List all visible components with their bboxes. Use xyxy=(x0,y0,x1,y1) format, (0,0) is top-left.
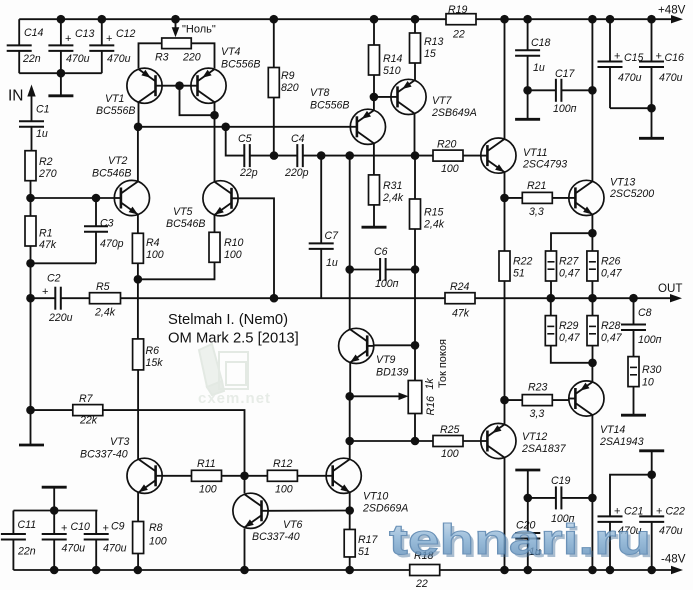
wire: VT2 base line xyxy=(31,194,114,203)
wire: C19 line right xyxy=(561,497,592,499)
watermark cxem.net logo xyxy=(198,344,271,407)
wire: VT2 collector up xyxy=(137,127,139,182)
junction dot mirror line tap xyxy=(221,123,230,132)
svg-text:3,3: 3,3 xyxy=(529,206,544,218)
svg-text:VT5: VT5 xyxy=(173,206,193,218)
svg-text:470u: 470u xyxy=(659,72,683,84)
svg-text:0,47: 0,47 xyxy=(601,268,623,280)
wire: VT10 emitter down xyxy=(349,492,351,510)
wire: R25 line xyxy=(415,440,433,442)
svg-text:100: 100 xyxy=(224,249,242,261)
svg-text:-48V: -48V xyxy=(661,553,686,566)
wire: C3 node down to output line xyxy=(30,263,32,298)
resistor R24 xyxy=(445,281,475,320)
wire: degeneration node down to R6 xyxy=(137,279,139,339)
wire: VT13 emitter node to R26 xyxy=(591,233,593,251)
capacitor C9 (electrolytic) xyxy=(84,511,127,571)
capacitor C2 (electrolytic) xyxy=(42,273,73,325)
svg-text:22p: 22p xyxy=(239,167,258,179)
capacitor C20 xyxy=(515,498,541,570)
svg-text:R23: R23 xyxy=(528,382,548,394)
resistor R8 xyxy=(133,522,167,554)
wire: R21 to VT13 base xyxy=(552,197,569,199)
label Tok pokoya (bias current) xyxy=(437,339,449,388)
svg-text:VT14: VT14 xyxy=(600,424,625,436)
svg-text:2SA1943: 2SA1943 xyxy=(599,436,644,448)
svg-text:2SD669A: 2SD669A xyxy=(362,503,408,515)
resistor R11 xyxy=(192,458,222,496)
svg-text:R20: R20 xyxy=(437,139,457,151)
potentiometer R16 1k (bias, Tok pokoya) xyxy=(350,345,437,441)
svg-text:Stelmah I. (Nem0): Stelmah I. (Nem0) xyxy=(168,312,288,328)
svg-text:R13: R13 xyxy=(424,36,444,48)
resistor R2 xyxy=(25,151,57,181)
svg-text:470u: 470u xyxy=(103,543,127,555)
wire: VT5 emitter to R10 xyxy=(214,215,216,232)
wire: C7 node to VAS column xyxy=(321,151,354,160)
svg-text:470u: 470u xyxy=(659,525,683,537)
wire: R6 down to VT3 collector xyxy=(137,370,139,460)
wire: output line down to R7 node xyxy=(30,298,32,410)
transistor VT9 BD139 (npn) xyxy=(339,328,409,378)
svg-text:51: 51 xyxy=(358,546,370,558)
wire: VT7 collector down to C4/C5 line xyxy=(414,113,416,155)
resistor R28 0.47 (emitter) xyxy=(587,298,623,345)
svg-text:+: + xyxy=(614,51,620,63)
wire: R26 to output line xyxy=(591,281,593,298)
svg-text:C8: C8 xyxy=(638,307,652,319)
transistor VT4 BC556B (pnp) xyxy=(191,46,261,103)
resistor R7 xyxy=(73,393,103,427)
junction dot R25 line left xyxy=(345,437,354,446)
svg-text:IN: IN xyxy=(8,88,24,105)
ground below R30 xyxy=(621,387,646,416)
junction dot C19 right node xyxy=(588,494,597,503)
node IN arrow and label xyxy=(8,85,36,122)
transistor VT6 BC337-40 (npn) xyxy=(233,493,303,543)
transistor VT1 BC556B (pnp) xyxy=(96,68,162,117)
capacitor C22 (electrolytic) xyxy=(639,506,685,571)
svg-text:1u: 1u xyxy=(36,128,48,140)
svg-text:2,4k: 2,4k xyxy=(423,219,445,231)
svg-text:VT13: VT13 xyxy=(610,177,635,189)
svg-text:BC337-40: BC337-40 xyxy=(80,449,128,461)
svg-text:R8: R8 xyxy=(149,522,163,534)
junction dot C6 left xyxy=(345,265,354,274)
capacitor C15 (electrolytic) xyxy=(598,19,644,108)
svg-text:tehnari.ru: tehnari.ru xyxy=(389,516,651,564)
ground below C13 xyxy=(48,73,73,96)
capacitor C17 xyxy=(553,68,577,115)
svg-text:R22: R22 xyxy=(513,256,533,268)
wire: C15 to C16 bottom join xyxy=(610,104,656,113)
wire: VT11 emitter down xyxy=(504,172,506,198)
svg-text:+: + xyxy=(103,523,109,535)
svg-text:BC556B: BC556B xyxy=(221,59,260,71)
svg-text:R16: R16 xyxy=(425,396,437,416)
svg-text:VT4: VT4 xyxy=(221,46,241,58)
svg-text:VT3: VT3 xyxy=(110,436,130,448)
wire: output line (right part, to OUT) xyxy=(475,297,672,299)
svg-text:OM Mark 2.5 [2013]: OM Mark 2.5 [2013] xyxy=(168,331,299,347)
svg-text:+48V: +48V xyxy=(658,4,686,17)
svg-text:BC556B: BC556B xyxy=(96,105,135,117)
svg-text:R17: R17 xyxy=(358,534,379,546)
svg-text:820: 820 xyxy=(281,82,299,94)
svg-text:BC546B: BC546B xyxy=(92,168,131,180)
svg-text:100: 100 xyxy=(146,249,164,261)
svg-text:0,47: 0,47 xyxy=(601,332,623,344)
capacitor C14 xyxy=(7,19,44,73)
svg-text:2SA1837: 2SA1837 xyxy=(521,443,567,455)
wire: cascode mirror line to VT8 base xyxy=(138,126,350,128)
svg-text:22n: 22n xyxy=(17,546,36,558)
wire: R1 to C3 node xyxy=(26,246,35,268)
wire: bias column C6-node to base node xyxy=(414,270,416,346)
wire: VT2 emitter to R4 xyxy=(137,215,139,234)
svg-text:+: + xyxy=(656,51,662,63)
svg-text:R7: R7 xyxy=(79,393,94,405)
svg-text:C7: C7 xyxy=(325,230,340,242)
svg-text:R31: R31 xyxy=(383,180,402,192)
svg-text:C1: C1 xyxy=(36,104,50,116)
wire: VT8 emitter up to VT7 base node xyxy=(373,97,375,110)
svg-text:C22: C22 xyxy=(666,506,686,518)
potentiometer R3 220 (null trimmer) xyxy=(139,19,215,68)
svg-text:Ток покоя: Ток покоя xyxy=(437,339,449,388)
resistor R20 xyxy=(433,139,463,176)
svg-text:100: 100 xyxy=(199,484,217,496)
svg-text:C16: C16 xyxy=(665,52,685,64)
capacitor C6 xyxy=(374,246,399,290)
wire: R15 node down to R15 xyxy=(414,156,416,199)
resistor R12 xyxy=(267,458,297,496)
resistor R5 xyxy=(90,281,121,319)
transistor VT2 BC546B (npn) xyxy=(92,155,150,216)
wire: VT3 base to R11 xyxy=(162,475,192,477)
wire: VT6 collector up to R11/R12 node xyxy=(244,476,246,494)
wire: C19 node to -48V rail xyxy=(591,498,593,570)
svg-text:C10: C10 xyxy=(71,521,91,533)
junction dot C5/R9 xyxy=(270,151,279,160)
wire: VAS line to R15 node xyxy=(350,151,420,160)
svg-text:100: 100 xyxy=(441,163,459,175)
capacitor C21 (electrolytic) xyxy=(598,475,652,570)
svg-text:OUT: OUT xyxy=(658,282,682,295)
svg-text:C19: C19 xyxy=(551,475,571,487)
transistor VT14 2SA1943 (pnp) xyxy=(569,381,644,448)
svg-text:47k: 47k xyxy=(452,308,470,320)
wire: R8 to -48V rail xyxy=(137,554,139,571)
svg-text:C17: C17 xyxy=(555,68,576,80)
resistor R18 (in series in -48V rail) xyxy=(410,550,440,590)
resistor R10 xyxy=(209,232,244,262)
junction dots on +48V rail xyxy=(57,15,656,24)
svg-text:C12: C12 xyxy=(116,28,136,40)
svg-text:R26: R26 xyxy=(601,256,621,268)
svg-text:VT1: VT1 xyxy=(105,93,124,105)
wire: VT1-VT4 base link xyxy=(162,81,191,90)
transistor VT5 BC546B (npn) xyxy=(166,181,238,230)
resistor R23 xyxy=(522,382,552,421)
wire: VT11 emitter node down to R22 xyxy=(504,198,506,251)
svg-text:BC556B: BC556B xyxy=(310,100,349,112)
resistor R17 xyxy=(344,529,378,558)
ground above C10 xyxy=(42,487,67,510)
wire: R25 line to bias column xyxy=(350,437,420,446)
capacitor C18 xyxy=(515,19,550,90)
wire: VT14 collector down to C19 node xyxy=(591,415,593,498)
svg-text:51: 51 xyxy=(513,268,525,280)
capacitor C1 xyxy=(19,104,50,152)
wire: R12 line xyxy=(245,475,268,477)
wire: VT4 collector down to VT5 collector xyxy=(214,102,216,182)
wire: R12 to VT10 base xyxy=(297,475,326,477)
svg-text:10: 10 xyxy=(642,377,654,389)
ground below R31 xyxy=(362,205,387,227)
svg-text:C5: C5 xyxy=(238,133,252,145)
wire: VT6 emitter down to -48V xyxy=(244,528,246,570)
wire: VT10 emitter node down to R17 xyxy=(349,511,351,530)
resistor R1 xyxy=(25,216,57,251)
svg-text:22: 22 xyxy=(415,578,428,590)
svg-text:R6: R6 xyxy=(146,345,160,357)
junction dot VT2 base node xyxy=(26,194,35,203)
svg-text:0,47: 0,47 xyxy=(559,332,581,344)
wire: VT1 collector down to mirror line xyxy=(138,102,140,127)
svg-text:R11: R11 xyxy=(197,458,216,470)
wire: R15 to C6 line xyxy=(414,229,416,270)
svg-text:220u: 220u xyxy=(48,312,73,324)
svg-text:2SB649A: 2SB649A xyxy=(431,107,477,119)
capacitor C13 (electrolytic) xyxy=(48,19,94,73)
svg-text:2,4k: 2,4k xyxy=(382,192,404,204)
resistor R4 xyxy=(132,233,163,263)
svg-text:100: 100 xyxy=(149,536,167,548)
svg-text:R4: R4 xyxy=(146,237,160,249)
svg-text:100п: 100п xyxy=(375,278,399,290)
svg-text:C18: C18 xyxy=(531,37,551,49)
ground above C22 xyxy=(639,451,664,517)
capacitor C11 xyxy=(1,511,36,571)
svg-text:R30: R30 xyxy=(642,364,662,376)
resistor R30 xyxy=(628,357,662,389)
ground below C16 xyxy=(639,108,664,138)
wire: R23 node down to VT12 emitter xyxy=(504,400,506,424)
svg-text:15: 15 xyxy=(424,48,436,60)
wire: VT10 collector up to R25 line xyxy=(349,441,351,459)
svg-text:C2: C2 xyxy=(47,273,61,285)
svg-text:+: + xyxy=(656,506,662,518)
wire: VT9 emitter down to wiper node xyxy=(345,362,354,400)
wire: VAS column down to C6 line xyxy=(349,156,351,270)
wire: C11/C10/C9 top join xyxy=(13,506,97,515)
wire: VT14 emitter up xyxy=(591,363,593,382)
capacitor C10 (electrolytic) xyxy=(42,511,90,571)
svg-text:R29: R29 xyxy=(559,320,579,332)
junction dots on -48V rail xyxy=(50,566,656,575)
capacitor C3 xyxy=(31,198,124,263)
svg-text:+: + xyxy=(61,523,67,535)
wire: VT13 emitter node to R27 xyxy=(551,233,592,251)
svg-text:R2: R2 xyxy=(39,156,53,168)
svg-text:"Ноль": "Ноль" xyxy=(182,24,216,36)
wire: R7 line from left node xyxy=(31,409,74,411)
svg-text:100п: 100п xyxy=(553,103,577,115)
wire: R20 to VT11 base xyxy=(463,155,481,157)
resistor R6 xyxy=(133,339,164,370)
svg-text:R9: R9 xyxy=(281,70,295,82)
svg-text:2SC5200: 2SC5200 xyxy=(609,188,654,200)
wire: +48V top supply rail (right segment) xyxy=(476,18,673,20)
svg-text:100: 100 xyxy=(441,448,459,460)
svg-text:47k: 47k xyxy=(39,239,57,251)
wire: output/feedback line (left part) xyxy=(31,297,56,299)
wire: C5 node to C4 xyxy=(274,155,297,157)
wire: VT7 base node to VT7 xyxy=(374,96,391,98)
svg-text:R5: R5 xyxy=(96,281,110,293)
wire: VT11 collector to +48V xyxy=(504,19,506,139)
wire: R14 to VT7 base node xyxy=(373,75,375,97)
svg-text:1u: 1u xyxy=(326,257,338,269)
wire: base link down to VT4 collector xyxy=(180,86,219,120)
wire: C14/C13/C12 bottom join xyxy=(19,69,102,78)
svg-text:R1: R1 xyxy=(39,228,53,240)
wire: R21 line xyxy=(505,197,523,199)
resistor R31 xyxy=(369,175,404,205)
wire: VT12 collector to -48V xyxy=(504,458,506,571)
wire: C19 line left xyxy=(528,497,556,499)
wire: C6 right lead xyxy=(386,265,420,274)
junction dot C19 left node xyxy=(524,494,533,503)
svg-text:470u: 470u xyxy=(66,53,90,65)
wire: R27 to output line xyxy=(550,281,552,298)
svg-text:470u: 470u xyxy=(618,72,642,84)
wire: VT6 base to VT10 emitter node xyxy=(268,510,350,512)
wire: R11 to node xyxy=(221,475,245,477)
node +48V arrow and label xyxy=(658,4,686,24)
wire: C8 to R30 xyxy=(633,330,635,357)
ground above C20 xyxy=(515,470,540,498)
svg-text:C4: C4 xyxy=(291,133,305,145)
svg-text:R27: R27 xyxy=(559,256,580,268)
wire: VT9 base to bias column xyxy=(374,341,419,350)
wire: R17 to -48V rail xyxy=(349,557,351,570)
junction dot R7 node xyxy=(26,406,35,415)
wire: R23 line xyxy=(505,399,523,401)
svg-text:100п: 100п xyxy=(638,334,662,346)
resistor R14 xyxy=(369,19,403,77)
wire: VT13 emitter down xyxy=(588,215,597,238)
svg-text:VT12: VT12 xyxy=(522,431,547,443)
wire: VT5 base to feedback column xyxy=(238,198,274,298)
resistor R22 xyxy=(499,251,533,281)
junction dots on C17 line xyxy=(523,86,596,95)
svg-text:BC546B: BC546B xyxy=(166,218,205,230)
svg-text:100: 100 xyxy=(275,484,293,496)
transistor VT7 2SB649A (pnp) xyxy=(391,79,477,119)
svg-text:2,4k: 2,4k xyxy=(94,307,116,319)
wire: R2 to base node xyxy=(30,181,32,198)
wire: C6 left lead xyxy=(350,269,380,271)
svg-text:22n: 22n xyxy=(22,53,41,65)
wire: R22 down across output line to R23 node xyxy=(504,281,506,400)
resistor R9 xyxy=(268,19,298,97)
title text xyxy=(168,312,299,347)
capacitor C4 xyxy=(284,133,309,179)
wire: R28 bottom to VT14 emitter node xyxy=(588,346,597,368)
svg-text:+: + xyxy=(42,286,48,298)
junction dot VT7 base node xyxy=(370,93,379,102)
transistor VT3 BC337-40 (npn) xyxy=(80,436,162,493)
wire: C4 to C7 node xyxy=(303,151,326,160)
svg-text:220p: 220p xyxy=(284,167,309,179)
svg-text:470u: 470u xyxy=(107,53,131,65)
wire: mirror line tap down to C5 xyxy=(226,127,245,156)
resistor R27 0.47 (emitter) xyxy=(546,251,581,281)
svg-text:470u: 470u xyxy=(62,543,86,555)
svg-text:R24: R24 xyxy=(450,281,470,293)
svg-text:1k: 1k xyxy=(424,378,436,390)
svg-text:+: + xyxy=(65,33,71,45)
svg-text:2SC4793: 2SC4793 xyxy=(522,159,567,171)
capacitor C12 (electrolytic) xyxy=(89,19,135,73)
svg-text:R10: R10 xyxy=(224,237,244,249)
svg-text:220: 220 xyxy=(182,52,201,64)
resistor R15 xyxy=(410,199,445,231)
svg-text:510: 510 xyxy=(383,65,401,77)
wire: R25 to VT12 base xyxy=(464,440,481,442)
capacitor C7 xyxy=(309,156,339,299)
junction dot R23 node xyxy=(500,396,509,405)
junction dot VT11 emitter node xyxy=(500,194,509,203)
transistor VT13 2SC5200 (npn) xyxy=(569,177,654,216)
wire: R23 to VT14 base xyxy=(552,399,569,401)
junction dots on output line xyxy=(26,294,638,303)
resistor R25 xyxy=(433,424,463,460)
svg-text:22k: 22k xyxy=(79,415,98,427)
svg-text:15k: 15k xyxy=(146,357,164,369)
svg-text:VT7: VT7 xyxy=(432,95,453,107)
wire: +48V top supply rail (left segment) xyxy=(19,18,446,20)
svg-text:VT8: VT8 xyxy=(310,87,330,99)
wire: VT3 emitter to R8 xyxy=(137,492,139,521)
capacitor C16 (electrolytic) xyxy=(639,19,684,108)
wire: R4 to emitter-degeneration node xyxy=(134,263,143,283)
svg-text:VT9: VT9 xyxy=(376,354,396,366)
ground below R7 node xyxy=(19,410,44,445)
svg-text:VT11: VT11 xyxy=(523,147,548,159)
svg-text:R19: R19 xyxy=(448,4,468,16)
wire: R15 node to R20 xyxy=(415,155,433,157)
transistor VT12 2SA1837 (pnp) xyxy=(481,423,567,458)
junction dot VT1/VT2 collectors xyxy=(134,123,143,132)
wire: C2 to R5 xyxy=(61,297,90,299)
wire: R7 to VT6 collector column xyxy=(103,410,245,476)
resistor R13 xyxy=(410,19,444,63)
node OUT arrow and label xyxy=(658,282,682,302)
svg-text:C6: C6 xyxy=(374,246,388,258)
svg-text:R12: R12 xyxy=(273,458,293,470)
svg-text:1u: 1u xyxy=(533,62,545,74)
resistor R26 0.47 (emitter) xyxy=(587,251,623,281)
svg-text:C13: C13 xyxy=(75,28,95,40)
svg-text:R3: R3 xyxy=(155,52,169,64)
resistor R21 xyxy=(522,180,552,218)
junction dot R11/R12 node xyxy=(240,472,249,481)
junction dot C21/C22 top join xyxy=(647,470,656,479)
capacitor C19 xyxy=(551,475,575,525)
